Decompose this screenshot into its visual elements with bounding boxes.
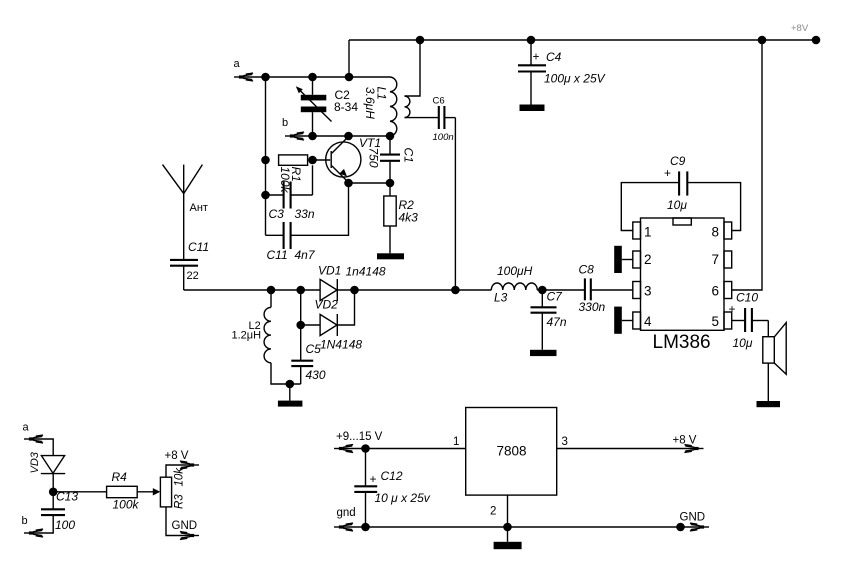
svg-text:b: b [282,117,288,129]
svg-text:b: b [22,515,28,527]
svg-text:8: 8 [712,225,720,240]
pin 2 [633,251,641,268]
node junction L3 / C7 [538,286,547,295]
svg-text:2: 2 [644,252,652,267]
svg-text:+: + [729,302,736,316]
ground speaker [757,401,781,407]
node GND arrow (R3) [180,532,199,540]
capacitor C11 (22) [170,260,198,290]
potentiometer R3 [160,477,171,507]
notch mark [673,218,691,225]
node junction gnd line end [676,523,685,532]
svg-text:GND: GND [680,512,706,524]
inductor L2 [264,290,301,384]
pin 1 [633,222,641,239]
inductor L1 primary [390,77,397,136]
wire R4 to R3 wiper [137,491,153,493]
node junction b-line / C2 [308,132,317,141]
svg-text:100k: 100k [278,167,292,194]
svg-text:LM386: LM386 [653,332,711,353]
diode VD3 [41,456,65,492]
capacitor C2 (variable) [296,77,332,136]
capacitor C9 bypass loop [621,166,740,231]
pin 8 [724,222,732,239]
ground C7 [530,350,557,356]
wire regulator output [557,448,695,450]
node +8V rail right end [812,36,821,45]
pin 4 [633,312,641,329]
svg-text:10k: 10k [173,467,185,487]
svg-text:100μ x 25V: 100μ x 25V [544,72,606,86]
capacitor C5 [291,290,313,384]
node a (bottom left) arrow [24,435,43,443]
svg-text:C7: C7 [547,290,564,304]
wire regulator input [341,448,466,450]
node b (tank tap) arrow [285,132,304,140]
pin 3 [633,282,641,299]
node junction pin2 / gnd line [503,523,512,532]
transistor VT1 [313,137,361,183]
node junction emitter / C1 R2 [386,179,395,188]
svg-text:2: 2 [490,506,496,518]
speaker [763,321,786,402]
capacitor C3 [266,165,313,208]
wire junction to R4 [53,491,106,493]
wire C8 to pin 3 [592,289,633,291]
capacitor C13 [31,492,65,533]
wire +8V top supply rail [349,39,816,41]
inductor L1 secondary [405,40,439,118]
op-amp U1 LM386 body [641,218,725,330]
svg-text:1.2μH: 1.2μH [232,330,262,342]
node b (bottom left) arrow [24,529,43,537]
svg-text:L3: L3 [494,291,508,305]
capacitor C10 [729,302,769,332]
svg-text:+: + [370,472,377,486]
svg-text:a: a [234,58,241,70]
svg-text:C5: C5 [306,342,322,356]
svg-text:7808: 7808 [497,444,527,459]
node junction VD1 cathode / VD2 return [350,286,359,295]
ground C4 [520,105,545,112]
wire detector line right [537,289,584,291]
svg-text:C1: C1 [401,148,415,163]
wire pin 6 to +8V rail [732,40,762,290]
svg-text:4: 4 [644,314,652,329]
svg-text:R3: R3 [174,494,186,509]
wire emitter down to C11 [292,183,349,235]
pin 7 [724,251,732,268]
svg-text:Ант: Ант [190,202,208,214]
node +8 V output arrow [684,445,703,453]
node junction detector / L2 [267,286,276,295]
svg-text:750: 750 [366,148,380,168]
svg-text:+: + [664,166,671,180]
svg-text:1: 1 [453,436,459,448]
node junction L2 / ground [286,380,295,389]
svg-text:C4: C4 [546,50,562,64]
svg-text:430: 430 [306,368,326,382]
svg-text:C11: C11 [188,240,209,254]
node junction input / C12 [361,444,370,453]
node junction a-line / C2 [308,73,317,82]
svg-text:7: 7 [712,252,720,267]
ground R2 [377,253,404,259]
node junction gnd / C12 [361,523,370,532]
node junction left rail / R1 [261,156,270,165]
regulator U2 7808 [466,408,557,496]
svg-text:C10: C10 [736,291,758,305]
node junction emitter [344,179,353,188]
svg-text:+8V: +8V [791,23,809,34]
node junction left rail / C3 [261,191,270,200]
svg-text:+8 V: +8 V [673,435,697,447]
ground L2 C5 [278,401,303,407]
svg-text:+9...15 V: +9...15 V [336,431,383,443]
svg-text:10μ: 10μ [733,336,753,350]
capacitor C1 [380,136,400,183]
svg-text:330n: 330n [579,300,606,314]
capacitor C12 [354,449,377,528]
svg-text:100μH: 100μH [497,264,533,278]
wire R3 top to +8V [166,465,190,477]
wire b-line [292,135,391,137]
inductor L3 [491,283,537,290]
wire ground line [341,526,700,528]
node GND output arrow [690,523,709,531]
resistor R2 [384,183,396,253]
svg-text:5: 5 [712,314,720,329]
node junction rail / pin 6 branch [758,36,767,45]
svg-text:C8: C8 [579,263,595,277]
ground pin 4 [614,307,633,334]
svg-text:4k3: 4k3 [399,211,419,225]
wire to ground [289,384,291,401]
ground 7808 [494,542,522,549]
ground pin 2 [614,246,633,273]
node junction detector / C6 branch [451,286,460,295]
node junction rail / L1 secondary [416,36,425,45]
capacitor C8 [585,278,591,300]
node a (tank tap) arrow [234,73,253,81]
node junction a-line / +8V rail [345,73,354,82]
svg-text:100: 100 [55,518,75,532]
svg-text:C12: C12 [381,469,403,483]
svg-text:1n4148: 1n4148 [346,265,386,279]
wire rail down to a-line [348,40,350,77]
svg-text:a: a [23,422,30,434]
svg-text:GND: GND [172,520,198,532]
wire a-line [241,76,390,78]
diode VD2 [301,290,355,336]
pin 6 [724,282,732,299]
svg-text:VD1: VD1 [318,264,341,278]
svg-text:R4: R4 [112,470,128,484]
resistor R4 [107,486,138,497]
svg-text:3: 3 [562,436,568,448]
node junction VD2 anode [296,321,305,330]
diode VD1 [320,279,337,301]
node junction b-line / L1 [386,132,395,141]
svg-text:10 μ x 25v: 10 μ x 25v [375,491,431,505]
node junction detector / VD2 C5 [296,286,305,295]
svg-text:6: 6 [712,284,720,299]
node junction R1 / base [308,156,317,165]
wire detector line left [184,289,320,291]
svg-text:3: 3 [644,284,652,299]
wire C6 down to detector line [454,118,456,290]
wire R3 bottom to GND [166,507,190,536]
svg-text:33n: 33n [295,207,315,221]
capacitor C4 [518,40,546,105]
wire detector line middle [337,289,491,291]
node junction rail / C4 [527,36,536,45]
resistor R1 [279,155,308,165]
antenna [163,165,203,260]
svg-text:47n: 47n [547,315,567,329]
pin 5 [724,312,732,329]
svg-text:VD3: VD3 [29,451,41,473]
svg-text:1: 1 [644,225,652,240]
svg-text:8-34: 8-34 [334,100,358,114]
node gnd input arrow [334,523,353,531]
node +8V arrow (R3) [180,461,199,469]
wire emitter line [349,182,391,184]
svg-text:C9: C9 [670,154,686,168]
node junction VD3 / C13 / R4 [49,488,58,497]
capacitor C11 (4n7) [266,222,291,249]
svg-text:C3: C3 [269,207,285,221]
svg-text:VD2: VD2 [315,298,339,312]
svg-text:C6: C6 [433,96,445,107]
node +9...15 V input arrow [334,445,353,453]
svg-text:100n: 100n [433,132,454,143]
svg-text:gnd: gnd [337,507,356,519]
svg-text:10μ: 10μ [667,198,687,212]
wiper arrow R3 [153,488,161,495]
wire a to VD3 [31,439,53,455]
svg-text:100k: 100k [113,498,140,512]
wire left rail [265,77,267,235]
svg-text:+8 V: +8 V [165,450,189,462]
capacitor C6 [439,106,456,129]
node junction a-line / left rail [261,73,270,82]
wire pin 2 to ground [507,495,509,542]
svg-text:1N4148: 1N4148 [320,338,362,352]
svg-text:3.6μH: 3.6μH [363,87,377,119]
svg-text:+: + [533,50,540,64]
svg-text:4n7: 4n7 [295,248,316,262]
capacitor C7 [531,290,557,350]
svg-text:22: 22 [187,270,199,282]
svg-text:C11: C11 [267,248,288,262]
node junction b-line / VT1 collector [344,132,353,141]
